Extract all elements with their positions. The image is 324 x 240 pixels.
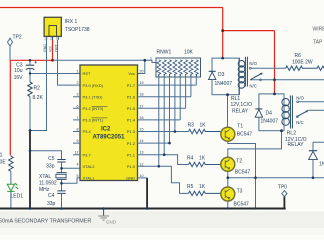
ground GND symbol <box>103 209 105 216</box>
svg-text:GND: GND <box>106 220 117 225</box>
wire RST row <box>30 73 80 75</box>
svg-text:P3.0 (RXD): P3.0 (RXD) <box>83 83 104 88</box>
svg-text:XTAL: XTAL <box>39 174 51 180</box>
wire red horizontal to RL2 drop <box>223 30 275 32</box>
svg-text:N/O: N/O <box>249 61 257 66</box>
svg-text:GND: GND <box>126 176 135 181</box>
svg-text:17: 17 <box>140 104 144 108</box>
svg-text:R4: R4 <box>187 156 194 162</box>
svg-text:TSOP1738: TSOP1738 <box>65 27 90 33</box>
svg-text:P3.2 (INT0): P3.2 (INT0) <box>83 106 104 111</box>
resistor R2 8.2K <box>29 74 31 131</box>
svg-text:RL2: RL2 <box>287 131 296 137</box>
pin labels TSOP GND Vcc OUT (rotated) <box>43 44 59 52</box>
svg-text:10: 10 <box>140 174 144 178</box>
svg-text:R2: R2 <box>34 86 41 92</box>
svg-text:1N4007: 1N4007 <box>261 119 279 125</box>
svg-text:2: 2 <box>77 81 79 85</box>
svg-text:3: 3 <box>77 93 79 97</box>
svg-text:XTAL1: XTAL1 <box>83 176 96 181</box>
wire T1 emitter L to ground <box>228 142 256 208</box>
svg-text:1K: 1K <box>199 184 206 190</box>
bottom page band <box>0 212 324 229</box>
svg-text:15: 15 <box>140 128 144 132</box>
svg-text:D3: D3 <box>218 72 225 78</box>
wire GND pin10 stub then black drop to rail <box>138 177 148 179</box>
IC left pin labels <box>83 71 104 180</box>
capacitor C5 33p <box>57 160 65 163</box>
svg-text:10K: 10K <box>184 50 194 56</box>
svg-text:50mA SECONDARY TRANSFORMER: 50mA SECONDARY TRANSFORMER <box>0 218 91 224</box>
IC pin numbers left <box>75 70 79 178</box>
svg-text:T2: T2 <box>236 158 242 164</box>
IC pin numbers right <box>140 70 144 178</box>
svg-text:11: 11 <box>75 151 79 155</box>
svg-text:14: 14 <box>140 139 144 143</box>
wire T3 emitter to rail <box>227 201 229 209</box>
wire red vertical into RL1 box top <box>222 31 224 58</box>
svg-text:1: 1 <box>150 57 152 61</box>
wire P1.6 row <box>138 96 191 98</box>
svg-text:P1.0: P1.0 <box>127 164 136 169</box>
svg-text:1N4007: 1N4007 <box>215 81 233 87</box>
svg-text:IRX 1: IRX 1 <box>65 19 78 25</box>
svg-text:Vcc: Vcc <box>49 46 53 52</box>
svg-text:16V: 16V <box>14 75 24 81</box>
wire XTAL1 row jog <box>62 178 81 183</box>
svg-text:12: 12 <box>140 162 144 166</box>
resistor R4 1K <box>189 162 222 166</box>
svg-text:P3.3 (INT1): P3.3 (INT1) <box>83 118 104 123</box>
svg-text:D4: D4 <box>266 111 273 117</box>
svg-text:TP0: TP0 <box>278 185 287 191</box>
svg-text:XTAL2: XTAL2 <box>83 164 96 169</box>
wire branch to C5/XTAL <box>30 151 62 160</box>
svg-text:7: 7 <box>77 116 79 120</box>
svg-text:AT89C2051: AT89C2051 <box>93 134 126 140</box>
IC right pin labels <box>126 71 136 180</box>
relay RL2 box with diode D4 <box>259 94 284 131</box>
svg-text:P1.5: P1.5 <box>127 106 136 111</box>
transistor T1 BC547 <box>227 95 229 127</box>
svg-text:1K: 1K <box>200 122 207 128</box>
capacitor C4 33p <box>61 183 63 191</box>
svg-text:N/C: N/C <box>249 83 256 88</box>
node TP0 test point <box>282 191 287 197</box>
svg-text:100E 2W: 100E 2W <box>292 60 313 66</box>
wire P1.4 row <box>138 119 181 121</box>
svg-text:11.0592: 11.0592 <box>39 180 57 186</box>
transistor T3 BC547 <box>221 187 235 201</box>
svg-text:P3.1 (TXD): P3.1 (TXD) <box>83 94 104 99</box>
svg-text:RNW1: RNW1 <box>157 50 172 56</box>
wire P1.0 row stepping down to R5 <box>138 166 189 193</box>
resistor R3 1K <box>189 129 221 133</box>
relay RL2 coil <box>282 96 293 129</box>
svg-text:5: 5 <box>77 174 79 178</box>
svg-text:33p: 33p <box>46 164 55 170</box>
svg-text:R3: R3 <box>188 122 195 128</box>
wire +5V red top rail <box>0 7 223 9</box>
wire TSOP OUT pin down to P3.0 <box>58 40 81 85</box>
IC2 AT89C2051 <box>80 65 138 181</box>
svg-text:10u: 10u <box>14 68 23 74</box>
wire P1.3 row to R3 <box>138 131 189 133</box>
node TP2 test point <box>8 38 13 60</box>
wire black ground rail <box>0 208 286 210</box>
svg-text:RST: RST <box>83 71 92 76</box>
svg-text:T1: T1 <box>237 124 243 130</box>
wire red TSOP Vcc pin drop <box>52 37 54 60</box>
wire P1.1 row stepping down to R4 <box>138 155 189 165</box>
svg-text:Vcc: Vcc <box>128 71 135 76</box>
svg-text:WIRE: WIRE <box>313 27 324 33</box>
svg-text:BC547: BC547 <box>237 132 253 138</box>
relay RL1 box with diode D3 <box>212 58 239 95</box>
relay RL1 coil <box>238 57 247 95</box>
svg-text:18: 18 <box>140 93 144 97</box>
svg-text:RELAY: RELAY <box>288 142 305 148</box>
svg-text:1K: 1K <box>199 156 206 162</box>
wire TSOP GND pin down then left to R2 line <box>30 40 47 131</box>
wire T2 collector to RL2 coil bottom <box>228 131 282 158</box>
svg-text:RELAY: RELAY <box>232 109 249 115</box>
svg-text:P1.3: P1.3 <box>127 129 136 134</box>
svg-text:P1.4: P1.4 <box>127 118 136 123</box>
svg-text:8.2K: 8.2K <box>33 95 44 101</box>
svg-text:P1.7: P1.7 <box>127 83 136 88</box>
IR receiver IRX1 TSOP1738 <box>44 17 61 40</box>
transistor T2 BC547 <box>221 157 235 171</box>
svg-text:R5: R5 <box>187 184 194 190</box>
svg-text:12V,1C/O: 12V,1C/O <box>231 102 253 108</box>
svg-text:R1: R1 <box>0 152 3 158</box>
svg-text:P1.6: P1.6 <box>127 94 136 99</box>
svg-text:BC547: BC547 <box>234 201 250 207</box>
svg-text:IC2: IC2 <box>101 126 111 132</box>
wire XTAL2 row <box>62 167 81 169</box>
svg-text:1: 1 <box>77 70 79 74</box>
svg-text:C4: C4 <box>48 193 55 199</box>
resistor R5 1K <box>189 191 222 195</box>
svg-text:8: 8 <box>77 128 79 132</box>
svg-text:P3.7: P3.7 <box>83 152 92 157</box>
wire common row to diode D5 and edge <box>228 177 324 179</box>
svg-text:TAP: TAP <box>313 40 323 46</box>
resistor R1 (value cut at edge) <box>10 155 12 156</box>
wire P1.5 row <box>138 107 186 109</box>
wire T2 emitter / T3 collector vertical <box>227 171 229 187</box>
wire Vcc row to IC pin20 and RNW1 pin1 <box>53 60 157 62</box>
svg-text:R6: R6 <box>295 53 302 59</box>
wire P1.7 row <box>138 84 197 86</box>
diode D3 1N4007 <box>209 70 216 72</box>
svg-text:13: 13 <box>140 151 144 155</box>
wire red vertical from top rail to junction <box>222 8 224 31</box>
svg-text:100E: 100E <box>0 159 6 165</box>
wire red left drop to R1 <box>9 60 11 155</box>
svg-text:C5: C5 <box>48 156 55 162</box>
diode D5 1N4007 (right edge) <box>313 142 324 150</box>
svg-text:BC547: BC547 <box>235 170 251 176</box>
IC left short stubs <box>73 97 80 155</box>
svg-text:6: 6 <box>77 104 79 108</box>
wire P1.2 row <box>138 142 170 144</box>
capacitor C3 10u 16V <box>29 60 31 65</box>
svg-text:4: 4 <box>77 162 79 166</box>
svg-text:P3.4: P3.4 <box>83 129 92 134</box>
svg-text:TP2: TP2 <box>13 35 22 41</box>
wire black ground drop from R2/TSOP junction <box>29 131 31 209</box>
svg-text:N/C: N/C <box>296 120 303 125</box>
diode D4 1N4007 <box>255 108 262 110</box>
resistor network RNW1 10K <box>156 58 201 77</box>
wire red vertical into RL2 box top <box>274 31 276 94</box>
svg-text:P1.1: P1.1 <box>127 152 136 157</box>
svg-text:9: 9 <box>77 139 79 143</box>
svg-text:LED1: LED1 <box>11 193 24 199</box>
svg-text:33p: 33p <box>47 201 56 207</box>
svg-text:N/O: N/O <box>296 96 304 101</box>
svg-text:1N: 1N <box>319 162 324 168</box>
svg-text:19: 19 <box>140 81 144 85</box>
svg-text:T3: T3 <box>237 188 243 194</box>
wire red +5V branch row under TSOP <box>10 59 52 61</box>
resistor R6 100E 2W <box>286 66 324 70</box>
svg-text:P1.2: P1.2 <box>127 141 136 146</box>
wire RNW1 column drops to P1 rows <box>159 77 197 166</box>
crystal XTAL 11.0592 MHz <box>61 168 63 172</box>
svg-text:20: 20 <box>140 70 144 74</box>
svg-text:16: 16 <box>140 116 144 120</box>
wire black riser to TP0 <box>283 196 285 208</box>
LED1 <box>7 183 18 191</box>
